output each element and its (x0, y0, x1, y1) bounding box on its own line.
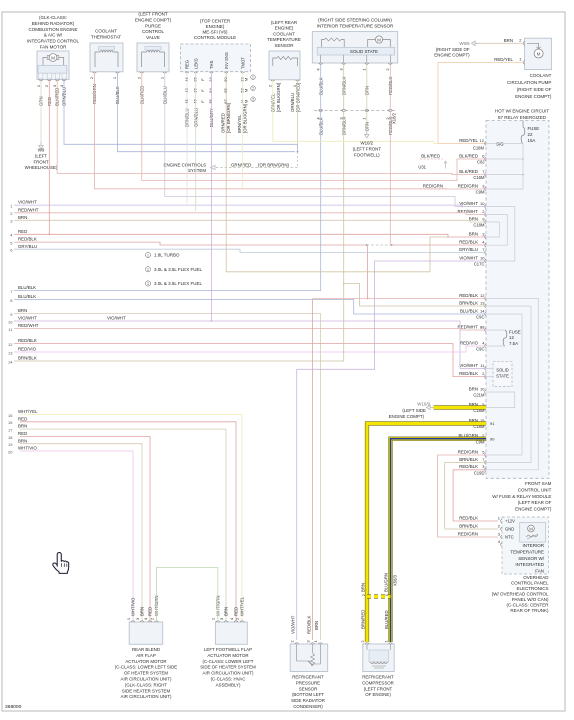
thermostat coil symbol (95, 52, 118, 67)
svg-text:GRN/RED: GRN/RED (231, 162, 251, 167)
svg-text:CIRCULATION PUMP: CIRCULATION PUMP (507, 80, 551, 85)
svg-text:RED: RED (18, 229, 27, 234)
svg-text:(C-CLASS: HVAC: (C-CLASS: HVAC (211, 677, 246, 682)
svg-text:WHT/YEL: WHT/YEL (240, 596, 245, 616)
svg-text:COOLANT: COOLANT (273, 31, 295, 36)
svg-text:M: M (377, 37, 381, 42)
svg-text:RED/GRN: RED/GRN (458, 531, 478, 536)
SAM fuse 22 15A (522, 121, 524, 128)
svg-text:RED: RED (18, 431, 27, 436)
VIO/WHT vertical to refrigerant pressure sensor pin 2 (296, 369, 298, 640)
svg-text:22: 22 (528, 132, 533, 137)
svg-text:17: 17 (8, 428, 13, 433)
wire 19 BRN to rear blend actuator pin 3 (20, 444, 142, 622)
svg-text:24: 24 (208, 77, 213, 82)
svg-text:13: 13 (8, 350, 13, 355)
svg-text:AIR CIRCULATION UNIT): AIR CIRCULATION UNIT) (121, 694, 172, 699)
svg-text:REAR BLEND: REAR BLEND (132, 647, 160, 652)
interior sensor pin2 RED/BLK wire down to wire5 junction (389, 112, 391, 245)
svg-text:BRN/RED: BRN/RED (361, 610, 366, 629)
wire 17 BRN to left footwell actuator pin 3 (20, 429, 226, 622)
coolant temp sensor pins (271, 80, 275, 81)
SAM pin BRN/BLK 13 (485, 304, 486, 308)
svg-text:88: 88 (480, 324, 485, 329)
svg-text:CONTROL: CONTROL (142, 29, 164, 34)
svg-text:PANEL W/O CAN): PANEL W/O CAN) (512, 597, 549, 602)
SAM pin BRN 15 (yellow wire) (485, 422, 486, 426)
interior fan sensor motor symbol (528, 525, 535, 532)
svg-text:BRN: BRN (314, 621, 319, 630)
SAM internal brackets region1 (486, 207, 515, 262)
svg-text:RED/BLK: RED/BLK (459, 515, 478, 520)
front SAM control unit dashed box (486, 121, 549, 479)
svg-text:ENGINE): ENGINE) (206, 24, 225, 29)
wire 15 WHT/YEL to left footwell actuator pin 2 (20, 415, 242, 623)
left footwell actuator pins (216, 621, 220, 622)
ME-SFI REG wire down (186, 73, 188, 204)
svg-text:91: 91 (490, 421, 495, 426)
fan motor pins 1-4 (39, 80, 43, 81)
interior fan sensor dashed box (502, 517, 549, 574)
svg-text:RED/BLK: RED/BLK (306, 615, 311, 634)
ME-SFI variant legend circles (251, 75, 256, 80)
svg-text:20: 20 (8, 449, 13, 454)
coolant temp sensor resistor symbol (273, 58, 298, 66)
ground W9 (39, 142, 43, 149)
SAM pin RED/GRN 3 with offpage label (485, 187, 486, 191)
svg-text:BLU/GRN: BLU/GRN (384, 573, 389, 592)
svg-text:W10/2: W10/2 (360, 141, 373, 146)
svg-text:16: 16 (8, 420, 13, 425)
svg-text:50: 50 (223, 77, 228, 82)
svg-text:COOLANT: COOLANT (95, 29, 117, 34)
interior temp sensor resistor symbol (322, 40, 345, 48)
svg-text:RED/YEL: RED/YEL (494, 57, 513, 62)
svg-text:W/ FUSE & RELAY MODULE: W/ FUSE & RELAY MODULE (492, 494, 551, 499)
svg-text:ENGINE COMPT): ENGINE COMPT) (515, 94, 552, 99)
svg-text:VIO/WHT: VIO/WHT (291, 615, 296, 634)
svg-text:SENSOR: SENSOR (274, 43, 294, 48)
svg-text:(C-CLASS: LOWER LEFT SIDE: (C-CLASS: LOWER LEFT SIDE (115, 665, 177, 670)
SAM pin VIO/WHT 10 (485, 205, 486, 209)
branch BRN/BLK to SAM BRN/BLK 13 (344, 284, 486, 306)
fan motor internal motor symbol (49, 54, 57, 62)
svg-text:2: 2 (252, 87, 254, 91)
svg-text:(BOTTOM LEFT: (BOTTOM LEFT (292, 692, 324, 697)
SAM pin BLU/BLK 14 (485, 312, 486, 316)
svg-text:X58/3: X58/3 (393, 574, 398, 586)
svg-text:REFRIGERANT: REFRIGERANT (292, 675, 324, 680)
svg-text:C16M: C16M (473, 175, 485, 180)
SAM pin BLU/GRN 2 (yellow wire) (485, 437, 486, 441)
svg-text:M: M (243, 89, 248, 92)
svg-text:INTEGRATED: INTEGRATED (515, 562, 544, 567)
svg-text:WHT/VIO: WHT/VIO (18, 446, 37, 451)
svg-text:CONDENSER): CONDENSER) (293, 704, 323, 709)
svg-text:45: 45 (184, 99, 189, 104)
ME-SFI TMOT wire down (242, 73, 244, 191)
svg-text:FRONT SAM: FRONT SAM (525, 481, 552, 486)
svg-text:M: M (243, 100, 248, 103)
svg-text:RED/BLK: RED/BLK (459, 371, 478, 376)
svg-text:43: 43 (184, 88, 189, 93)
pump pins (523, 41, 524, 45)
svg-text:BRN/BLK: BRN/BLK (459, 457, 478, 462)
svg-text:BRN: BRN (469, 231, 478, 236)
ME-SFI pins and variant pin numbers (185, 72, 189, 73)
svg-text:+12V: +12V (505, 519, 515, 524)
wire 8 BLU/BLK to SAM BLU/BLK 14 (14, 300, 486, 315)
interior fan sensor NTC squiggle (526, 535, 538, 537)
svg-text:10: 10 (480, 255, 485, 260)
svg-text:RED/BLK: RED/BLK (459, 240, 478, 245)
compressor pins (365, 643, 369, 644)
SAM pin RED/WHT 88 and fuse 12 (485, 328, 486, 332)
svg-text:RED/VIO: RED/VIO (18, 347, 37, 352)
wire 6 GRY/BLU to SAM GRY/BLU 7 (14, 249, 486, 252)
svg-text:BLK/RED: BLK/RED (459, 169, 478, 174)
svg-text:2: 2 (147, 268, 149, 272)
SAM pin BRN 9 (485, 220, 486, 224)
svg-text:BLU/RED: BLU/RED (384, 610, 389, 629)
svg-text:368000: 368000 (5, 704, 22, 710)
svg-text:C18M: C18M (473, 223, 485, 228)
svg-text:NTC: NTC (505, 535, 514, 540)
fan ORN/BLU wire to coolant temp sensor pin 1 (64, 80, 298, 152)
svg-text:RED/GRN: RED/GRN (458, 449, 478, 454)
svg-text:VIO/WHT: VIO/WHT (18, 316, 37, 321)
wire 16 RED to left footwell actuator pin 4 (20, 422, 236, 622)
svg-text:C9C: C9C (476, 315, 484, 320)
interior fan sensor pins (501, 519, 502, 523)
ground W16/9 (427, 405, 434, 409)
svg-text:55: 55 (223, 88, 228, 93)
SAM internal bus from fuse (522, 144, 524, 190)
interior sensor pin1 BRN to ground W10/2 (366, 112, 368, 131)
svg-text:RED/YEL: RED/YEL (459, 138, 478, 143)
svg-text:46: 46 (184, 77, 189, 82)
purge valve coil symbol (142, 52, 165, 67)
svg-text:INTERIOR: INTERIOR (522, 543, 544, 548)
svg-text:(GLK-CLASS:: (GLK-CLASS: (39, 15, 67, 20)
svg-text:BEHIND RADIATOR): BEHIND RADIATOR) (32, 21, 75, 26)
svg-text:BRN/BLK: BRN/BLK (18, 356, 37, 361)
svg-text:(RIGHT SIDE OF: (RIGHT SIDE OF (436, 47, 470, 52)
svg-text:W9: W9 (38, 148, 45, 153)
svg-text:REG: REG (185, 60, 190, 69)
svg-text:VIO/WHT: VIO/WHT (459, 255, 478, 260)
wire 3 BRN to SAM BRN 9 (14, 220, 486, 222)
RED/BLK row to SAM RED/BLK 12 (313, 298, 486, 300)
interior temp sensor motor symbol (375, 36, 382, 43)
svg-text:C9C: C9C (476, 347, 484, 352)
svg-text:C8J: C8J (477, 160, 484, 165)
svg-text:ORN/BLU: ORN/BLU (290, 93, 295, 112)
svg-text:FUSE: FUSE (528, 126, 540, 131)
svg-text:OF HEATER SYSTEM: OF HEATER SYSTEM (124, 671, 168, 676)
svg-text:SYSTEM: SYSTEM (188, 168, 206, 173)
svg-text:BLK/RED: BLK/RED (459, 153, 478, 158)
svg-text:AIR CIRCULATION UNIT): AIR CIRCULATION UNIT) (121, 677, 172, 682)
SAM internal brackets region2 (486, 299, 538, 470)
refrigerant pressure sensor box (290, 644, 328, 672)
svg-text:RED/VIO: RED/VIO (460, 340, 479, 345)
svg-text:C18M: C18M (473, 146, 485, 151)
svg-text:90: 90 (490, 436, 495, 441)
svg-text:RED: RED (148, 607, 153, 616)
ME-SFI control module U1 dashed box (181, 44, 251, 72)
yellow wire BLU/GRN 2 to compressor pin 1 (391, 439, 487, 642)
svg-text:[OR BLK/GRN]: [OR BLK/GRN] (276, 83, 281, 112)
fan motor M1 box (37, 51, 69, 80)
svg-text:16: 16 (192, 88, 197, 93)
svg-text:PRESSURE: PRESSURE (296, 680, 320, 685)
svg-text:ENGINE): ENGINE) (275, 26, 294, 31)
svg-text:BRN: BRN (18, 424, 27, 429)
svg-text:BLK/RED: BLK/RED (421, 153, 440, 158)
svg-text:VIO/WHT: VIO/WHT (107, 316, 126, 321)
purge BLK/RED wire to SAM BLK/RED 6 (142, 73, 486, 181)
SAM pin RED/BLK 3 (485, 468, 486, 472)
svg-text:BRN: BRN (504, 38, 513, 43)
wire 18 RED to rear blend actuator pin 4 (20, 436, 150, 622)
svg-text:WHT/VIO: WHT/VIO (131, 597, 136, 616)
pump internal motor symbol (534, 49, 543, 58)
svg-text:(LEFT SIDE: (LEFT SIDE (402, 408, 426, 413)
svg-text:AIR FLAP: AIR FLAP (136, 653, 156, 658)
svg-text:BLU/BLK: BLU/BLK (460, 308, 478, 313)
svg-text:15: 15 (8, 413, 13, 418)
wire 14 BRN/BLK from interior sensor pin 3 (14, 112, 344, 361)
svg-text:RED/WHT: RED/WHT (18, 207, 39, 212)
coolant temperature sensor box (269, 51, 300, 80)
thermostat pins (93, 72, 97, 73)
svg-text:35: 35 (208, 99, 213, 104)
coolant temp sensor BRN/YEL wire to SAM SIG line (273, 81, 438, 144)
svg-text:M: M (243, 78, 248, 81)
svg-text:1: 1 (147, 254, 149, 258)
SAM pin BRN 5 (yellow wire) (485, 406, 486, 410)
svg-text:RED/GRN: RED/GRN (458, 183, 478, 188)
svg-text:3.0L & 3.5L FLEX FUEL: 3.0L & 3.5L FLEX FUEL (154, 281, 202, 286)
svg-text:BRN/BLK: BRN/BLK (459, 523, 478, 528)
SAM RED/GRN 5 wire to interior fan sensor NTC (438, 455, 498, 537)
svg-text:AIR CIRCULATION UNIT): AIR CIRCULATION UNIT) (203, 671, 254, 676)
interior temp sensor pins 4 3 1 2 (320, 55, 322, 63)
svg-text:M: M (537, 51, 541, 56)
svg-text:BRN: BRN (361, 583, 366, 592)
purge BLK/BLU wire to SAM VIO/WHT 10 upper (165, 73, 486, 207)
svg-text:ACTUATOR MOTOR: ACTUATOR MOTOR (125, 659, 166, 664)
svg-text:BRN: BRN (18, 438, 27, 443)
svg-text:M: M (51, 55, 55, 60)
svg-text:ELECTRONICS: ELECTRONICS (516, 586, 548, 591)
wire 12 RED/BLK to SAM RED/BLK 2 (14, 344, 486, 377)
rear blend actuator pins (131, 621, 135, 622)
svg-text:RED/WHT: RED/WHT (18, 323, 39, 328)
svg-text:W16/9: W16/9 (417, 401, 430, 406)
svg-text:(LEFT: (LEFT (35, 153, 48, 158)
coolant sensor pin 1 wire down to junction (297, 81, 299, 144)
svg-text:BRN/YEL: BRN/YEL (237, 114, 242, 133)
svg-text:FRONT: FRONT (33, 159, 48, 164)
svg-text:1: 1 (252, 76, 254, 80)
svg-text:FUSE: FUSE (509, 329, 521, 334)
svg-text:12: 12 (480, 293, 485, 298)
svg-text:SENSOR W/: SENSOR W/ (518, 556, 545, 561)
svg-text:CONTROL PANEL: CONTROL PANEL (511, 581, 549, 586)
svg-text:12: 12 (8, 342, 13, 347)
svg-text:WHT/YEL: WHT/YEL (18, 409, 38, 414)
svg-text:(GLK-CLASS: RIGHT: (GLK-CLASS: RIGHT (125, 682, 168, 687)
svg-text:(RIGHT SIDE OF: (RIGHT SIDE OF (517, 87, 552, 92)
svg-text:BRN: BRN (18, 215, 27, 220)
wire 2 RED/WHT to SAM RED/WHT 2 (14, 213, 486, 215)
svg-text:(LEFT FRONT: (LEFT FRONT (353, 146, 382, 151)
svg-text:M: M (529, 526, 533, 531)
interior temp sensor solid state bar (317, 47, 395, 55)
svg-text:(TOP CENTER: (TOP CENTER (200, 19, 231, 24)
svg-text:U31: U31 (418, 165, 426, 170)
svg-text:INTEGRATED CONTROL: INTEGRATED CONTROL (27, 39, 79, 44)
svg-text:TEMPERATURE: TEMPERATURE (510, 549, 544, 554)
fan GRN wire to ground W9 (40, 80, 42, 142)
wire 9 BRN to refrigerant pressure sensor pin 1 (14, 314, 320, 641)
svg-text:12: 12 (509, 335, 514, 340)
svg-text:INTERIOR TEMPERATURE SENSOR: INTERIOR TEMPERATURE SENSOR (317, 23, 394, 28)
SAM pin RED/BLK 2 (485, 375, 486, 379)
svg-text:3: 3 (252, 98, 254, 102)
SAM pin RED/VIO 4 (485, 344, 486, 348)
svg-text:C21M: C21M (473, 393, 485, 398)
fan RED wire down to wire 4 (48, 80, 50, 234)
svg-text:ENGINE CONTROLS: ENGINE CONTROLS (164, 162, 207, 167)
svg-text:ENGINE COMPT): ENGINE COMPT) (434, 53, 470, 58)
svg-text:LEKS: LEKS (193, 58, 198, 69)
green bridge wire between actuators (157, 568, 218, 623)
svg-text:18: 18 (8, 435, 13, 440)
svg-text:RED: RED (18, 416, 27, 421)
svg-text:[OR BLK/GRN]: [OR BLK/GRN] (243, 104, 248, 133)
SAM SIG pin (485, 142, 486, 146)
svg-text:GND: GND (505, 527, 514, 532)
yellow wire BRN 5 to ground W16/9 (434, 405, 487, 409)
svg-text:(RIGHT SIDE STEERING COLUMN): (RIGHT SIDE STEERING COLUMN) (318, 18, 392, 23)
svg-text:SIDE HEATER SYSTEM: SIDE HEATER SYSTEM (122, 688, 171, 693)
svg-text:COMPRESSOR: COMPRESSOR (362, 680, 394, 685)
variant legend (145, 252, 150, 257)
svg-text:SOLID STATE: SOLID STATE (350, 49, 378, 54)
svg-text:RED: RED (234, 607, 239, 616)
svg-text:(LEFT FRONT: (LEFT FRONT (364, 686, 393, 691)
SAM pin GRY/BLU 7 (485, 251, 486, 255)
wire 7 BLU/BLK from interior sensor pin 4 (14, 112, 321, 291)
ground W9/8 (472, 41, 479, 45)
SAM pin BRN 3 (485, 235, 486, 239)
svg-text:(LEFT REAR: (LEFT REAR (271, 20, 298, 25)
rear blend air flap actuator motor box (129, 622, 163, 644)
wire 1 VIO/WHT to SAM VIO/WHT 10 (14, 205, 486, 206)
svg-text:W9/8: W9/8 (459, 41, 470, 46)
svg-text:7.5A: 7.5A (509, 341, 518, 346)
junction on BRN/BLK vertical (343, 283, 345, 285)
wire 5 RED/BLK to SAM RED/BLK 4 with inline connector (14, 242, 367, 245)
svg-text:(W/ OVERHEAD CONTROL: (W/ OVERHEAD CONTROL (492, 592, 549, 597)
svg-text:BRN: BRN (469, 386, 478, 391)
svg-text:STATE: STATE (496, 374, 509, 379)
SAM solid state box (493, 362, 512, 387)
svg-text:SIDE OF HEATER SYSTEM: SIDE OF HEATER SYSTEM (200, 665, 256, 670)
svg-text:& A/C W/: & A/C W/ (44, 33, 63, 38)
svg-text:10: 10 (480, 201, 485, 206)
svg-text:FOOTWELL): FOOTWELL) (354, 152, 380, 157)
thermostat BLU/BLK wire to junction at coolant sensor pin 1 (118, 73, 296, 152)
svg-text:FAN MOTOR: FAN MOTOR (40, 45, 67, 50)
svg-text:BLU/BLK: BLU/BLK (18, 285, 36, 290)
purge control valve box (137, 43, 169, 72)
wire 11 RED/WHT to SAM RED/WHT 88 (14, 329, 486, 331)
svg-text:LEFT FOOTWELL FLAP: LEFT FOOTWELL FLAP (204, 647, 252, 652)
svg-text:SENSOR: SENSOR (299, 686, 318, 691)
purge valve pins (140, 72, 144, 73)
svg-text:OVERHEAD: OVERHEAD (523, 575, 549, 580)
svg-text:C9M: C9M (476, 190, 485, 195)
svg-text:COMBUSTION ENGINE: COMBUSTION ENGINE (28, 27, 77, 32)
svg-text:ENGINE COMPT): ENGINE COMPT) (389, 414, 425, 419)
svg-text:19: 19 (8, 442, 13, 447)
SAM pin BRN 10 (485, 390, 486, 394)
svg-text:1.8L TURBO: 1.8L TURBO (154, 253, 180, 258)
refrigerant compressor box (363, 644, 394, 672)
svg-text:[OR BRN/RED]: [OR BRN/RED] (296, 83, 301, 112)
wire 4 RED to SAM BRN 3 (14, 234, 486, 237)
SAM pin RED/GRN 5 (485, 453, 486, 457)
svg-text:RED/GRN: RED/GRN (423, 183, 443, 188)
SAM pin BLK/RED 6 with offpage U31 (485, 157, 486, 161)
svg-text:[OR BRN/GRN]: [OR BRN/GRN] (226, 103, 231, 133)
svg-text:RED/BLK: RED/BLK (18, 237, 37, 242)
refrigerant pressure RED/BLK vertical join (312, 299, 314, 641)
svg-text:12: 12 (480, 138, 485, 143)
interior temperature sensor box (312, 32, 397, 63)
svg-text:VALVE: VALVE (146, 35, 160, 40)
svg-text:BLU/BLK: BLU/BLK (18, 294, 36, 299)
svg-text:67: 67 (223, 99, 228, 104)
svg-text:TEMPERATURE: TEMPERATURE (267, 37, 301, 42)
svg-text:CONTROL UNIT: CONTROL UNIT (518, 487, 552, 492)
svg-text:OF ENGINE): OF ENGINE) (365, 692, 391, 697)
svg-text:REFRIGERANT: REFRIGERANT (362, 675, 394, 680)
svg-text:BRN: BRN (224, 607, 229, 616)
svg-text:GRY/BLU: GRY/BLU (18, 244, 37, 249)
compressor connector X58/3 dashed bridge (367, 594, 391, 598)
svg-text:(OR BRN/GRN): (OR BRN/GRN) (258, 162, 290, 167)
svg-text:HOT W/ ENGINE CIRCUIT: HOT W/ ENGINE CIRCUIT (495, 109, 549, 114)
svg-text:ENGINE COMPT): ENGINE COMPT) (135, 17, 172, 22)
SAM BRN/BLK 7 wire to interior fan sensor GND (445, 463, 498, 530)
svg-text:FAN: FAN (535, 569, 544, 574)
SAM pin VIO/WHT 11 (485, 367, 486, 371)
ME-SFI LEKS wire down (195, 73, 197, 212)
svg-text:COOLANT: COOLANT (530, 73, 552, 78)
left footwell flap actuator motor box (215, 622, 247, 644)
svg-text:THS: THS (209, 60, 214, 69)
svg-text:10: 10 (8, 319, 13, 324)
engine controls system offpage arrow wire GRN/RED (215, 167, 298, 169)
coolant circulation pump box (525, 38, 552, 69)
svg-text:3.0L & 3.5L FLEX FUEL: 3.0L & 3.5L FLEX FUEL (154, 267, 202, 272)
SAM pin VIO/WHT 10 lower (485, 259, 486, 263)
